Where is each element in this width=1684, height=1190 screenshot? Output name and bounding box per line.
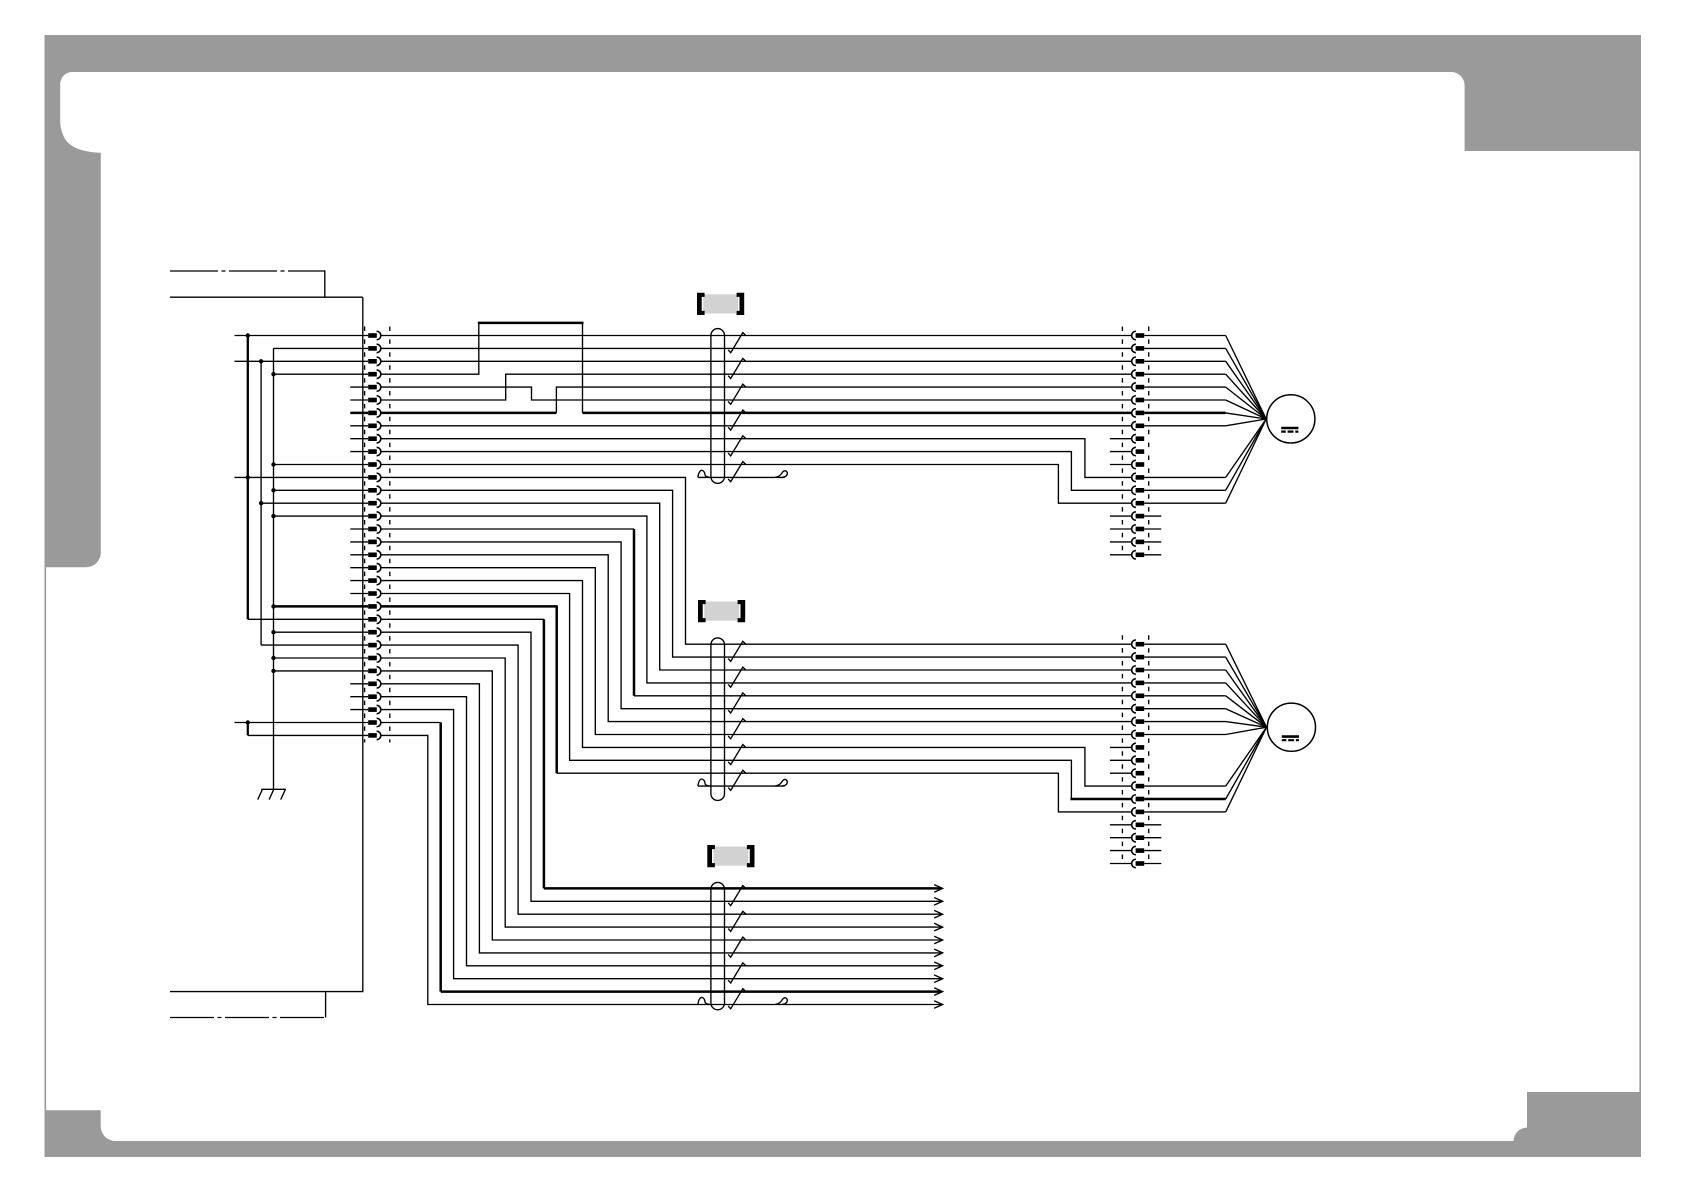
wire row22 to L14 a (bold)	[381, 605, 557, 608]
wire row2	[381, 347, 1132, 349]
connector CN1 right dashed boundary	[389, 327, 391, 743]
wire row12 left	[235, 476, 369, 478]
cable 3 wire-count slashes	[728, 886, 745, 1009]
wire row6 stub	[350, 399, 368, 401]
connector CN2 pins 1-18	[1132, 331, 1145, 559]
wire row16 to L5 b (bold)	[633, 529, 636, 696]
wire row10 jog	[381, 452, 1132, 491]
junction dots	[246, 333, 276, 724]
wire row18 to L7	[381, 555, 1132, 722]
bus line 3	[273, 348, 275, 789]
wire row1 left	[235, 335, 369, 337]
connector CN3 pins 1-18	[1132, 640, 1145, 868]
wire row16 to L5 a	[381, 528, 634, 530]
cable tie 1 tail	[698, 470, 788, 477]
label tag 2	[698, 600, 745, 622]
wire row3	[381, 360, 1132, 362]
wire row31 to B9 c (bold)	[441, 990, 941, 993]
connector CN3 right dashed boundary	[1148, 635, 1150, 866]
wire row11 jog	[381, 465, 1132, 504]
wire row24 to B2	[381, 632, 941, 901]
cable 2 wire-count slashes	[728, 641, 745, 790]
wire row11 left	[274, 464, 369, 466]
wire row20 to L12	[381, 581, 1132, 787]
wire detour down	[582, 323, 584, 413]
wire row25 left	[261, 644, 368, 646]
wire row22 to L14 b (bold)	[555, 605, 558, 773]
wire row9 stub	[350, 438, 368, 440]
connector CN2 left dashed boundary	[1121, 327, 1123, 558]
arrow heads (bottom outputs)	[934, 885, 942, 1009]
wire row15 left	[274, 515, 369, 517]
wire row18 stub	[350, 554, 368, 556]
wire row12 to L1	[381, 477, 1132, 644]
wire row23 to B1 a	[381, 618, 544, 620]
label tag 1	[697, 293, 744, 315]
wire row23 to B1 b (bold)	[543, 619, 546, 888]
wire row14 left	[261, 502, 368, 504]
wire row13 left	[274, 489, 369, 491]
ground (chassis)	[258, 789, 286, 799]
wire row2 left	[274, 347, 369, 349]
cable tie 2 band	[711, 638, 725, 801]
wire row9 jog	[381, 439, 1132, 478]
wire row32 left	[248, 734, 368, 736]
wire row8 stub	[350, 425, 368, 427]
wire row30 to B8	[381, 710, 941, 979]
wire row15 to L4	[381, 516, 1132, 683]
wire row21 to L13 b (bold)	[1070, 798, 1131, 801]
connector CN1 pins 1-32	[368, 331, 381, 739]
connector CN1 left dashed boundary	[364, 327, 366, 743]
wire row10 stub	[350, 451, 368, 453]
wire row17 to L6	[381, 542, 1132, 709]
motor M1 circle	[1267, 395, 1315, 443]
bottom bus line A	[170, 991, 363, 993]
wire row7 right (bold)	[583, 412, 1132, 415]
cable 1 wire-count slashes	[728, 333, 745, 482]
bus line 1 (thick)	[247, 336, 249, 620]
connector CN2 right dashed boundary	[1148, 327, 1150, 558]
top bus line 1 (dash-dot)	[170, 270, 325, 272]
wire row27 to B5	[381, 671, 941, 940]
wire row6 swap	[381, 374, 1132, 400]
bus line 2	[260, 361, 262, 645]
wire row19 to L8	[381, 568, 1132, 735]
wire row16 to L5 c	[634, 695, 1132, 697]
cable tie 3 tail	[698, 997, 788, 1004]
wire row14 to L3	[381, 503, 1132, 670]
wire row29 stub	[350, 696, 368, 698]
wire row24 left	[274, 631, 369, 633]
connector CN3 stub pins	[1110, 747, 1161, 863]
wire row22 left (bold)	[274, 605, 369, 608]
cable tie 1 band	[711, 329, 725, 484]
cable tie 3 band	[711, 882, 725, 1009]
cable tie 2 tail	[698, 779, 788, 786]
wire row28 to B6	[381, 684, 941, 953]
wire row3 left	[235, 360, 369, 362]
label tag 3	[707, 845, 754, 867]
wire (bottom bus link)	[325, 992, 327, 1018]
wire row19 stub	[350, 567, 368, 569]
wire row28 stub	[350, 683, 368, 685]
wire row16 stub	[350, 528, 368, 530]
wire row17 stub	[350, 541, 368, 543]
fan-out wires to motor M1	[1144, 336, 1266, 504]
wire row30 stub	[350, 709, 368, 711]
wire (top bus link)	[324, 270, 326, 297]
wire row4 detour	[381, 323, 479, 374]
motor M2 circle	[1267, 703, 1315, 751]
motor M1 DC symbol	[1281, 428, 1298, 432]
top bus line 2	[170, 296, 363, 298]
wire row22 to L14 c	[557, 773, 1132, 812]
fan-out wires to motor M2	[1144, 644, 1266, 812]
wire row23 to B1 c (bold)	[544, 887, 941, 890]
connector CN2 stub pins	[1110, 439, 1161, 555]
wire row21 to L13 a	[381, 594, 1072, 800]
wire row4 left	[274, 373, 369, 375]
wire row25 to B3	[381, 645, 941, 914]
wire row31 left	[235, 722, 369, 724]
wire row21 stub	[350, 593, 368, 595]
wire row13 to L2	[381, 490, 1132, 657]
wire row27 left	[274, 670, 369, 672]
wire row32 to B10	[381, 735, 941, 1004]
wire row31 to B9 b (bold)	[439, 723, 442, 992]
wire row31 to B9 a	[381, 722, 441, 724]
wire row29 to B7	[381, 697, 941, 966]
wire row26 to B4	[381, 658, 941, 927]
wire row8	[381, 425, 1132, 427]
wire row5 stub	[350, 386, 368, 388]
wire row5 swap	[381, 387, 1132, 400]
main bus wire (vertical)	[362, 297, 364, 991]
connector CN3 left dashed boundary	[1121, 635, 1123, 866]
wire row23 left	[248, 618, 368, 620]
wire row31-32 drop	[247, 723, 249, 736]
wire row7 stub (bold)	[350, 412, 368, 415]
wire row26 left	[274, 657, 369, 659]
wire row7 swap up	[556, 387, 1131, 413]
wire row7 swap (bold start)	[381, 412, 557, 415]
wire row1	[381, 335, 1132, 337]
motor M2 DC symbol	[1282, 737, 1299, 741]
wire row4 detour top (bold)	[478, 322, 584, 325]
bottom bus line B (dash-dot)	[170, 1017, 326, 1019]
wire row20 stub	[350, 580, 368, 582]
